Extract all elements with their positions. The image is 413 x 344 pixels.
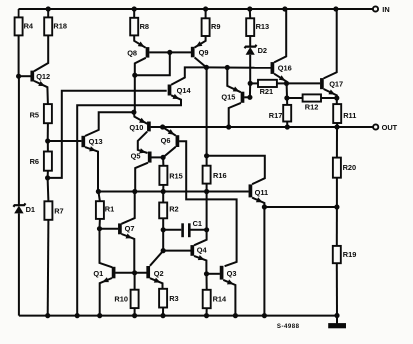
- wire Q13 collector: [85, 112, 134, 136]
- node Q15 base: [248, 95, 252, 99]
- svg-text:R17: R17: [269, 111, 283, 120]
- wire R15 top: [162, 157, 164, 165]
- node D2 R21 junction: [248, 81, 252, 85]
- node Q15 emitter tap: [225, 65, 229, 69]
- resistor R1: [98, 192, 100, 202]
- svg-text:R21: R21: [260, 87, 274, 96]
- svg-text:R4: R4: [24, 22, 34, 31]
- node R15 R2 junction: [161, 189, 165, 193]
- svg-text:R19: R19: [343, 250, 357, 259]
- emitter arrow Q3: [227, 279, 234, 284]
- transistor Q10: [147, 122, 151, 132]
- node Q16 emitter R21 junction: [284, 81, 288, 85]
- node Q8 collector loop: [133, 73, 137, 77]
- node Q6 emitter tap: [161, 125, 165, 129]
- node C1 left junction: [161, 228, 165, 232]
- node R17 output: [285, 125, 289, 129]
- wire Q7 emitter: [122, 234, 135, 273]
- wire Q17 emitter: [324, 89, 337, 104]
- svg-text:R13: R13: [256, 22, 270, 31]
- resistor R6: [47, 141, 49, 152]
- svg-text:Q1: Q1: [93, 269, 103, 278]
- wire R3 to rail: [162, 308, 164, 316]
- wire Q16 emitter to R17: [286, 83, 289, 105]
- svg-text:R6: R6: [30, 157, 39, 166]
- wire Q17 base: [287, 82, 321, 84]
- node top of Q17 collector: [334, 7, 338, 11]
- wire Q13 base: [48, 140, 82, 142]
- emitter arrow Q10: [139, 118, 146, 123]
- ground: [336, 316, 338, 324]
- node R16 top Q11 collector: [205, 154, 209, 158]
- wire R21 node to Q15 base: [249, 83, 251, 97]
- svg-text:Q16: Q16: [278, 64, 292, 73]
- node Q3 emitter ground: [233, 314, 237, 318]
- wire Q5 collector: [135, 163, 148, 192]
- emitter arrow Q2: [154, 278, 161, 283]
- svg-text:D2: D2: [258, 46, 267, 55]
- wire output line: [151, 126, 373, 128]
- wire Q12 emitter to R5: [34, 81, 48, 104]
- wire Q6 base to Q3 collector: [179, 141, 237, 266]
- emitter arrow Q12: [38, 81, 45, 86]
- resistor R16: [206, 156, 208, 166]
- wire D1 to ground rail: [18, 213, 20, 315]
- terminal IN: [373, 6, 378, 11]
- svg-text:Q7: Q7: [125, 224, 135, 233]
- wire R13 to D2: [249, 36, 251, 46]
- resistor R19: [336, 207, 338, 246]
- node R10 ground: [133, 314, 137, 318]
- wire bottom ground rail: [19, 315, 337, 317]
- transistor Q15: [241, 92, 245, 103]
- wire amplifier node line: [98, 191, 249, 193]
- wire Q10 collector to Q5 emitter: [138, 132, 148, 153]
- svg-text:Q9: Q9: [199, 48, 209, 57]
- node C1 right junction: [205, 228, 209, 232]
- resistor R18: [47, 9, 49, 17]
- node Q9 Q14 collectors: [204, 65, 208, 69]
- wire Q15 collector: [229, 103, 241, 127]
- resistor R14: [206, 274, 208, 290]
- node R12 left junction: [285, 96, 289, 100]
- emitter arrow Q4: [198, 255, 205, 260]
- node Q5 Q7 collectors: [133, 189, 137, 193]
- wire Q5 base: [151, 156, 163, 158]
- node R19 R20 junction: [335, 205, 339, 209]
- wire node line to C1 junction: [206, 192, 208, 230]
- transistor Q4: [190, 245, 194, 256]
- wire R6 to R7: [47, 171, 49, 178]
- wire Q16 emitter: [274, 74, 286, 84]
- resistor R8: [133, 9, 135, 18]
- wire Q8 Q9 base: [149, 51, 191, 53]
- transistor Q13: [81, 136, 85, 147]
- wire C1 junction to Q4 collector: [194, 230, 207, 246]
- wire R8 to Q8 emitter: [134, 35, 145, 47]
- wire Q3 base: [207, 273, 220, 275]
- resistor R17: [283, 105, 291, 122]
- node R10 base bus: [133, 271, 137, 275]
- wire R4 to Q12 base: [18, 35, 20, 76]
- node R11 output: [335, 125, 339, 129]
- wire top supply rail: [19, 8, 373, 10]
- node top of R8: [132, 7, 136, 11]
- wire R14 to rail: [206, 308, 208, 315]
- wire Q1 Q2 base bus: [115, 272, 146, 274]
- node R7 ground: [46, 314, 50, 318]
- node Q11 emitter ground: [262, 314, 266, 318]
- wire R16 bottom: [206, 184, 208, 192]
- wire Q10 emitter: [134, 112, 147, 124]
- transistor Q1: [112, 267, 116, 279]
- svg-text:Q14: Q14: [177, 86, 192, 95]
- zener diode D1: [13, 203, 25, 206]
- transistor Q2: [146, 266, 150, 278]
- svg-text:R11: R11: [343, 111, 356, 120]
- node Q5 base Q6 collector R15: [161, 155, 165, 159]
- svg-text:Q3: Q3: [227, 269, 237, 278]
- svg-text:C1: C1: [193, 219, 202, 228]
- wire Q8 collector: [135, 58, 146, 112]
- wire Q11 emitter: [252, 198, 264, 316]
- transistor Q7: [118, 223, 122, 234]
- transistor Q17: [320, 78, 324, 89]
- node Q10 emitter junction: [132, 110, 136, 114]
- node R5 R6 junction: [46, 139, 50, 143]
- svg-text:Q15: Q15: [221, 92, 235, 101]
- svg-text:R16: R16: [213, 171, 227, 180]
- wire R5 to node: [47, 123, 49, 141]
- svg-text:R2: R2: [169, 204, 178, 213]
- svg-text:D1: D1: [26, 205, 35, 214]
- emitter arrow Q1: [102, 277, 109, 282]
- zener diode D2: [245, 45, 257, 48]
- transistor Q8: [146, 47, 150, 58]
- resistor R21: [250, 82, 258, 84]
- wire Q14 collector: [171, 67, 206, 84]
- svg-text:Q5: Q5: [131, 151, 141, 160]
- wire Q16 base line: [206, 66, 271, 68]
- node ground rail end: [335, 313, 339, 317]
- resistor R3: [159, 289, 167, 308]
- svg-text:R7: R7: [54, 206, 63, 215]
- wire R10 to rail: [134, 308, 136, 316]
- svg-text:R3: R3: [169, 294, 178, 303]
- wire Q15 base: [244, 96, 250, 98]
- resistor R13: [249, 9, 251, 18]
- node R14 ground: [204, 314, 208, 318]
- wire Q7 collector: [122, 192, 135, 224]
- resistor R15: [162, 185, 164, 192]
- transistor Q11: [249, 184, 253, 197]
- transistor Q6: [176, 135, 180, 147]
- emitter arrow Q11: [256, 197, 263, 202]
- emitter arrow Q15: [233, 87, 240, 92]
- svg-text:Q11: Q11: [255, 188, 269, 197]
- wire Q4 base: [163, 250, 190, 252]
- wire Q1 emitter: [100, 278, 112, 316]
- wire Q6 collector: [163, 147, 176, 158]
- node R6 R7 junction: [46, 176, 50, 180]
- svg-text:Q10: Q10: [129, 123, 143, 132]
- node Q2 collector Q4 base: [161, 249, 165, 253]
- wire R17 to output line: [286, 122, 288, 128]
- node Q12 base junction: [17, 74, 21, 78]
- wire Q11 emitter tap line: [264, 206, 337, 208]
- terminal OUT: [373, 124, 378, 129]
- svg-text:R9: R9: [211, 22, 220, 31]
- wire R18 to Q12 collector: [34, 35, 48, 71]
- transistor Q9: [191, 47, 195, 58]
- svg-text:R14: R14: [213, 294, 227, 303]
- wire Q6 emitter: [163, 127, 176, 136]
- resistor R9: [205, 9, 207, 18]
- node Q14 emitter ground: [75, 314, 79, 318]
- svg-text:R10: R10: [114, 294, 128, 303]
- node Q4 emitter R14 Q3 base: [204, 272, 208, 276]
- wire Q2 collector column: [162, 230, 164, 251]
- emitter arrow Q17: [328, 89, 335, 94]
- resistor R12: [287, 97, 303, 99]
- transistor Q3: [220, 266, 224, 280]
- node Q8 base collector tie: [168, 50, 172, 54]
- svg-text:OUT: OUT: [382, 123, 398, 132]
- svg-text:R5: R5: [30, 111, 39, 120]
- wire Q3 emitter: [223, 280, 235, 316]
- node top of R18: [46, 7, 50, 11]
- wire Q9 collector: [195, 58, 207, 68]
- transistor Q14: [168, 85, 172, 96]
- svg-text:R1: R1: [105, 205, 114, 214]
- svg-text:Q13: Q13: [89, 137, 103, 146]
- node Q1 emitter ground: [98, 314, 102, 318]
- wire Q16 collector: [274, 9, 286, 62]
- node Q15 collector output: [227, 125, 231, 129]
- resistor R5: [44, 104, 52, 123]
- svg-text:R18: R18: [53, 22, 67, 31]
- svg-text:S-4988: S-4988: [277, 323, 300, 330]
- node Q13 emitter R1: [96, 189, 100, 193]
- wire Q2 emitter to R3: [150, 278, 163, 289]
- emitter arrow Q9: [196, 41, 203, 47]
- wire Q15 emitter: [227, 68, 240, 93]
- wire R7 to ground rail: [47, 220, 50, 316]
- wire R19 to ground: [336, 263, 338, 315]
- wire R11 to output line: [336, 123, 338, 127]
- wire D2 to R21 node: [249, 55, 251, 84]
- svg-text:Q6: Q6: [161, 136, 171, 145]
- emitter arrow Q8: [138, 41, 145, 47]
- capacitor C1: [163, 229, 181, 231]
- wire R1 to Q7 base node: [99, 219, 101, 229]
- resistor R7: [47, 178, 50, 201]
- resistor R4: [18, 9, 20, 17]
- transistor Q5: [148, 152, 152, 163]
- resistor R2: [162, 218, 164, 230]
- wire Q11 collector loop: [207, 156, 265, 184]
- svg-text:Q4: Q4: [197, 245, 208, 254]
- wire Q1 collector: [100, 229, 113, 268]
- emitter arrow Q16: [279, 75, 286, 81]
- wire Q17 collector: [324, 9, 337, 78]
- node R1 Q7 base Q1 collector: [97, 227, 101, 231]
- wire R20 to R19 node: [336, 178, 338, 207]
- transistor Q16: [271, 62, 275, 74]
- wire R2 top: [162, 192, 164, 203]
- svg-text:R8: R8: [140, 22, 149, 31]
- svg-text:R12: R12: [305, 103, 319, 112]
- svg-text:IN: IN: [382, 5, 389, 14]
- node Q11 emitter tap: [262, 205, 266, 209]
- svg-text:R15: R15: [169, 171, 183, 180]
- node R3 ground: [161, 314, 165, 318]
- node R16 bottom Q11 base: [205, 189, 209, 193]
- wire Q2 collector: [150, 251, 163, 266]
- node top of R13: [248, 7, 252, 11]
- resistor R11: [333, 104, 341, 123]
- wire R6 junction to Q14 base bus: [48, 91, 167, 178]
- svg-text:Q17: Q17: [329, 79, 343, 88]
- node top of Q16 collector: [283, 7, 287, 11]
- node R12 right Q17 emitter: [335, 96, 339, 100]
- svg-text:R20: R20: [343, 163, 357, 172]
- resistor R20: [336, 127, 338, 158]
- wire R9 to Q9 emitter: [195, 36, 206, 48]
- wire base collector loop: [135, 52, 170, 75]
- node top of R9: [204, 7, 208, 11]
- emitter arrow Q6: [168, 129, 175, 135]
- emitter arrow Q5: [139, 148, 146, 153]
- wire Q14 emitter: [77, 95, 181, 315]
- svg-text:Q2: Q2: [154, 269, 164, 278]
- transistor Q12: [30, 71, 34, 82]
- wire Q7 base: [100, 228, 119, 230]
- emitter arrow Q14: [173, 94, 180, 99]
- emitter arrow Q7: [126, 233, 133, 238]
- wire Q9 collector to R16: [206, 67, 208, 155]
- wire Q4 emitter: [194, 256, 206, 274]
- emitter arrow Q13: [89, 146, 96, 151]
- wire Q13 emitter: [85, 147, 98, 191]
- svg-text:Q8: Q8: [127, 48, 137, 57]
- wire Q12 base node to D1: [18, 76, 20, 205]
- svg-text:Q12: Q12: [36, 72, 50, 81]
- resistor R10: [134, 273, 136, 290]
